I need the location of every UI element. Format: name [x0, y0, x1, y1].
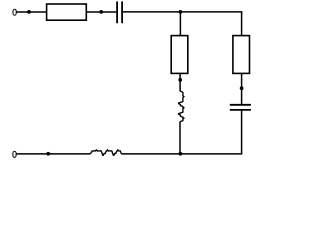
- node A (top rail T-junction): [179, 10, 183, 14]
- wire node A down to R2: [179, 12, 181, 36]
- node dot (bottom rail T-junction): [179, 152, 183, 156]
- inductor L2 (vertical coil): [179, 91, 184, 122]
- inductor L1 (horizontal coil): [90, 150, 121, 155]
- wire R2 to L2: [179, 73, 181, 91]
- node dot (R2-L2 junction): [178, 78, 182, 82]
- terminal T1 (top-left input): [13, 9, 16, 15]
- node dot (R3-C2 junction): [240, 86, 244, 90]
- node dot (top rail, right of R1): [99, 10, 103, 14]
- wire R3 to C2: [241, 73, 243, 104]
- resistor R2 (vertical box): [171, 36, 188, 74]
- node dot (bottom rail left): [46, 152, 50, 156]
- wire top-right corner down to R3: [241, 11, 243, 35]
- wire T2 to L1: [16, 153, 90, 155]
- capacitor C2 (vertical, shunt): [230, 105, 251, 110]
- wire C1 to top-right corner: [123, 11, 242, 13]
- wire C2 down to bottom-right corner: [241, 111, 243, 155]
- resistor R3 (vertical box): [233, 36, 250, 74]
- resistor R1 (horizontal box): [47, 4, 87, 20]
- terminal T2 (bottom-left): [13, 151, 16, 157]
- wire R1 to C1: [86, 11, 116, 13]
- wire L1 to bottom-right corner: [121, 153, 242, 155]
- node dot (top rail, left of R1): [27, 10, 31, 14]
- wire L2 down to bottom rail: [179, 122, 181, 154]
- wire T1 to R1: [17, 11, 47, 13]
- capacitor C1 (horizontal, series): [117, 1, 122, 23]
